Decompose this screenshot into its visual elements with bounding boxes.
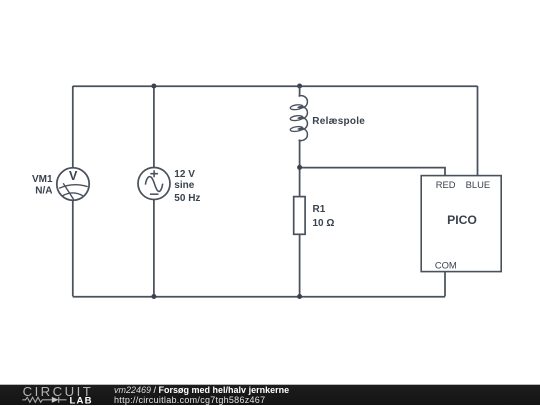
svg-text:12 V: 12 V [174, 169, 195, 180]
wire V1 top lead [153, 86, 155, 168]
wire VM1 bottom lead [72, 200, 74, 296]
node junction V1 bottom [151, 294, 156, 299]
svg-text:COM: COM [435, 260, 457, 271]
node junction V1 top [151, 84, 156, 89]
wire right vertical to PICO BLUE [477, 86, 479, 176]
svg-text:PICO: PICO [447, 213, 477, 227]
wire V1 bottom lead [153, 200, 155, 297]
PICO scope box U1 [421, 176, 501, 272]
node junction R1 bottom [297, 294, 302, 299]
wire VM1 top lead [72, 86, 74, 168]
logo diode [52, 397, 59, 403]
svg-text:RED: RED [436, 179, 456, 190]
logo resistor zigzag [22, 397, 52, 402]
footer caption [114, 386, 289, 406]
wire bottom horizontal net [73, 296, 445, 298]
svg-text:R1: R1 [313, 204, 326, 215]
svg-text:V: V [69, 169, 78, 183]
footer bar [0, 385, 540, 405]
wire R1 top lead [299, 167, 301, 196]
wire middle horizontal to PICO RED [300, 168, 445, 176]
svg-text:N/A: N/A [35, 186, 52, 197]
wire R1 bottom lead [299, 234, 301, 296]
svg-text:BLUE: BLUE [466, 179, 491, 190]
svg-text:LAB: LAB [70, 395, 93, 405]
wire PICO COM lead [444, 272, 446, 297]
voltmeter VM1 [57, 168, 89, 200]
CircuitLab logo [0, 384, 110, 405]
svg-text:50 Hz: 50 Hz [174, 193, 200, 204]
svg-text:Relæspole: Relæspole [312, 116, 365, 127]
resistor R1 [294, 197, 305, 235]
wire top horizontal net [73, 85, 478, 87]
wire L1 bottom lead [299, 140, 301, 168]
svg-text:sine: sine [174, 180, 194, 191]
node junction L1 bottom / R1 top [297, 165, 302, 170]
svg-text:10 Ω: 10 Ω [313, 218, 335, 229]
svg-text:VM1: VM1 [32, 174, 53, 185]
voltage source V1 sine [138, 168, 170, 200]
inductor L1 Relaespole coil [290, 86, 307, 141]
node junction L1 top [297, 84, 302, 89]
